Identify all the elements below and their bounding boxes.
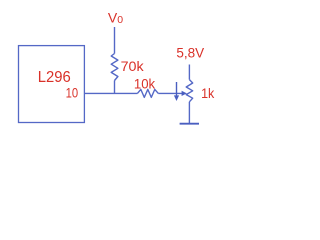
wire V0 to resistor 70k: [114, 27, 116, 54]
wire 70k to node: [114, 81, 116, 95]
svg-text:1k: 1k: [201, 85, 215, 101]
resistor 70k: [111, 54, 118, 81]
IC U1 box L296: [19, 46, 85, 123]
svg-text:10k: 10k: [134, 75, 156, 91]
svg-text:10: 10: [66, 85, 79, 101]
wire 5,8V to potentiometer: [188, 65, 190, 80]
svg-text:0: 0: [117, 14, 123, 26]
potentiometer 1k body: [186, 80, 193, 102]
wire potentiometer to ground: [188, 102, 190, 124]
adjustment arrowhead: [174, 95, 179, 101]
wire pin10 to resistor 10k: [84, 92, 137, 94]
adjustment arrow shaft: [176, 82, 178, 97]
ground: [180, 123, 199, 125]
svg-text:70k: 70k: [121, 58, 145, 74]
wiper arrowhead: [182, 91, 187, 96]
wire 10k to wiper: [158, 92, 182, 94]
svg-text:5,8V: 5,8V: [176, 44, 204, 60]
svg-text:L296: L296: [38, 69, 71, 86]
resistor 10k: [137, 89, 158, 97]
